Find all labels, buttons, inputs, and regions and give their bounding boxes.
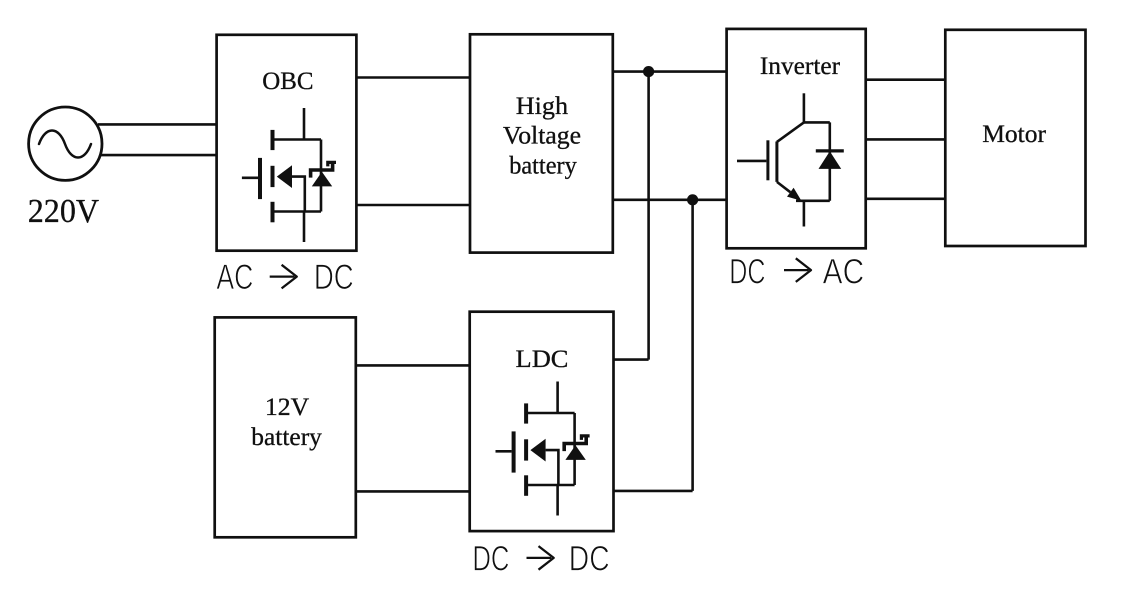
wire Inverter to Motor phase V <box>866 138 946 141</box>
MOSFET Q3 in LDC <box>496 382 590 516</box>
wire Inverter to Motor phase U <box>866 78 946 81</box>
svg-text:Voltage: Voltage <box>503 121 581 150</box>
svg-text:12V: 12V <box>265 392 310 421</box>
wire 12V to LDC top <box>356 364 470 367</box>
junction node A dot <box>643 66 654 77</box>
source bar <box>273 210 322 213</box>
channel segments <box>524 403 528 423</box>
wire HV to Inverter top <box>613 70 727 73</box>
svg-text:OBC: OBC <box>262 66 313 95</box>
IGBT Q2 in Inverter <box>737 93 844 226</box>
junction node B dot <box>687 194 698 205</box>
top link to diode <box>804 121 830 124</box>
wire HV to Inverter bottom <box>613 199 727 202</box>
vertical wire node B to LDC input <box>691 200 694 491</box>
emitter arrowhead <box>787 188 801 201</box>
right branch <box>573 413 576 485</box>
body diode triangle <box>312 172 332 187</box>
arrow glyph DC to DC <box>527 546 554 570</box>
zener crook <box>328 162 336 166</box>
Inverter box <box>727 29 866 248</box>
svg-text:Motor: Motor <box>982 119 1046 148</box>
wire Inverter to Motor phase W <box>866 198 946 201</box>
gate lead <box>496 450 512 453</box>
label AC -> DC under OBC <box>216 258 353 297</box>
label 12V battery <box>251 392 322 451</box>
label High Voltage battery <box>503 91 581 179</box>
right branch <box>320 140 323 212</box>
body link <box>292 177 305 212</box>
collector slant <box>777 122 804 141</box>
diode cathode bar <box>816 149 844 152</box>
AC source sine wave <box>39 131 91 158</box>
freewheel diode branch <box>828 122 831 200</box>
svg-text:battery: battery <box>251 422 322 451</box>
gate bar <box>512 431 516 472</box>
wire 12V to LDC bottom <box>356 490 470 493</box>
wire LDC top-right horizontal <box>614 358 649 361</box>
body link <box>546 450 559 485</box>
svg-text:220V: 220V <box>28 193 100 230</box>
gate lead <box>242 177 258 180</box>
wire OBC to HV bottom <box>356 204 470 207</box>
drain lead <box>303 108 306 140</box>
svg-text:DC: DC <box>729 252 765 291</box>
gate lead <box>737 160 766 163</box>
label DC -> AC under Inverter <box>729 252 864 291</box>
12V battery box <box>215 317 356 537</box>
emitter slant <box>777 182 790 192</box>
arrow glyph DC to AC <box>784 258 811 282</box>
MOSFET Q1 in OBC <box>242 108 336 242</box>
OBC box <box>217 35 357 251</box>
source lead <box>556 485 559 516</box>
label DC -> DC under LDC <box>472 540 609 579</box>
LDC box <box>470 312 614 531</box>
bottom link <box>796 200 830 203</box>
svg-text:DC: DC <box>569 540 610 579</box>
body bar <box>775 142 778 182</box>
svg-text:Inverter: Inverter <box>760 51 841 80</box>
body arrow <box>530 439 545 462</box>
source bar <box>526 484 575 487</box>
body diode zener bar <box>311 162 333 177</box>
gate bar <box>258 158 262 199</box>
Motor box <box>945 30 1085 246</box>
svg-text:AC: AC <box>216 258 253 297</box>
wire LDC bottom-right horizontal <box>614 490 693 493</box>
drain bar <box>526 412 575 415</box>
svg-text:High: High <box>516 91 569 120</box>
body diode triangle <box>565 445 585 460</box>
emitter lead <box>803 201 806 227</box>
arrow glyph AC to DC <box>270 265 297 289</box>
svg-text:battery: battery <box>509 151 577 180</box>
wire OBC to HV top <box>356 76 470 79</box>
vertical wire node A to LDC output <box>647 72 650 360</box>
svg-text:AC: AC <box>823 252 865 291</box>
source lead <box>303 212 306 243</box>
svg-text:DC: DC <box>472 540 509 579</box>
channel segments <box>271 130 275 150</box>
svg-text:LDC: LDC <box>516 344 569 373</box>
zener crook <box>581 436 589 440</box>
collector lead <box>803 93 806 122</box>
gate bar <box>766 140 769 180</box>
drain lead <box>556 382 559 414</box>
wire AC to OBC top <box>98 123 217 126</box>
wire AC to OBC bottom <box>100 154 217 157</box>
AC source V1 circle <box>29 107 102 180</box>
diode triangle <box>819 151 842 169</box>
High Voltage battery box <box>470 34 613 252</box>
body diode zener bar <box>564 436 586 451</box>
body arrow <box>277 165 292 188</box>
svg-text:DC: DC <box>314 258 354 297</box>
drain bar <box>273 138 322 141</box>
